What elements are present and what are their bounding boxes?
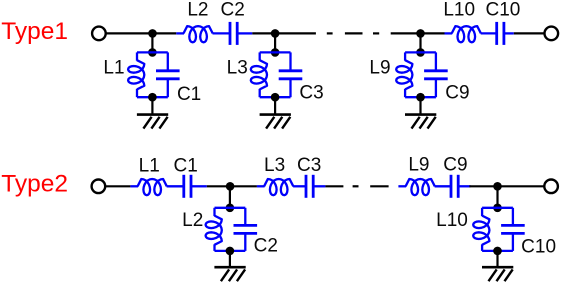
terminal port IN (Type2 left): [92, 180, 106, 194]
capacitor C10: [501, 208, 525, 251]
node branch bottom junction: [148, 93, 157, 102]
svg-text:C10: C10: [521, 237, 556, 258]
inductor L9: [396, 52, 412, 97]
wire L1-C1 branch stub: [151, 33, 153, 52]
svg-text:Type1: Type1: [1, 18, 68, 45]
wire branch bottom rail: [405, 96, 436, 98]
svg-text:C10: C10: [485, 0, 520, 20]
inductor L10: [445, 26, 481, 42]
svg-text:C9: C9: [443, 155, 467, 176]
terminal port OUT (Type1 right): [545, 27, 559, 41]
capacitor C2: [234, 208, 258, 251]
capacitor C1 (Type2): [167, 175, 207, 198]
svg-text:L9: L9: [408, 155, 429, 176]
wire L3-C3 branch stub: [274, 33, 276, 52]
wire branch bottom rail: [137, 96, 168, 98]
inductor L1 (Type2): [130, 179, 166, 195]
node branch bottom junction: [226, 247, 235, 256]
svg-text:C3: C3: [297, 155, 321, 176]
node branch bottom junction: [416, 93, 425, 102]
inductor L1: [128, 52, 144, 97]
ground: [214, 267, 245, 281]
ground: [405, 115, 436, 129]
wire: [514, 32, 544, 34]
node L10 branch top junction: [493, 204, 502, 213]
svg-text:L10: L10: [443, 0, 475, 20]
svg-text:C2: C2: [221, 0, 245, 21]
wire ground stub: [419, 97, 421, 114]
wire L2-C2 branch stub: [229, 186, 231, 208]
wire ground stub: [151, 97, 153, 114]
ground: [482, 267, 513, 281]
wire branch bottom rail: [260, 96, 291, 98]
node L9 branch top junction: [416, 48, 425, 57]
wire: [252, 32, 316, 34]
inductor L10: [473, 208, 489, 251]
capacitor C2: [213, 22, 253, 45]
terminal port IN (Type1 left): [92, 27, 106, 41]
svg-text:Type2: Type2: [1, 171, 68, 198]
capacitor C1: [156, 52, 180, 97]
svg-text:L3: L3: [227, 58, 248, 79]
wire branch top rail: [405, 51, 436, 53]
wire branch top rail: [215, 207, 246, 209]
node junction 1 (Type1): [148, 29, 157, 38]
svg-text:L10: L10: [436, 210, 468, 231]
wire ground stub: [274, 97, 276, 114]
inductor L2: [206, 208, 222, 251]
svg-text:L2: L2: [187, 0, 208, 21]
inductor L3 (Type2): [257, 179, 293, 195]
svg-text:C1: C1: [174, 156, 198, 177]
node junction 3 (Type1): [416, 29, 425, 38]
wire: [469, 185, 543, 187]
wire: [391, 32, 445, 34]
wire: [325, 185, 343, 187]
capacitor C9: [424, 52, 448, 97]
node L1 branch top junction: [148, 48, 157, 57]
svg-text:L9: L9: [369, 58, 390, 79]
node junction 2 (Type1): [271, 29, 280, 38]
node L3 branch top junction: [271, 48, 280, 57]
node L2 branch top junction: [226, 204, 235, 213]
node junction 1 (Type2): [226, 182, 235, 191]
wire ground stub: [496, 251, 498, 267]
capacitor C3 (Type2): [293, 175, 325, 198]
svg-text:C9: C9: [445, 83, 469, 104]
terminal port OUT (Type2 right): [544, 180, 558, 194]
svg-text:C3: C3: [299, 83, 323, 104]
inductor L3: [251, 52, 267, 97]
wire: [106, 185, 131, 187]
wire ground stub: [229, 251, 231, 267]
node branch bottom junction: [493, 247, 502, 256]
wire branch bottom rail: [482, 250, 513, 252]
wire branch top rail: [260, 51, 291, 53]
svg-text:C1: C1: [177, 84, 201, 105]
wire branch bottom rail: [215, 250, 246, 252]
wire dashed continuation (Type2): [353, 185, 389, 187]
wire: [207, 185, 257, 187]
inductor L9 (Type2): [398, 179, 434, 195]
ground: [137, 115, 168, 129]
wire L10-C10 branch stub: [496, 186, 498, 208]
wire branch top rail: [137, 51, 168, 53]
svg-text:L1: L1: [103, 58, 124, 79]
wire dashed continuation (Type1): [327, 32, 379, 34]
wire branch top rail: [482, 207, 513, 209]
capacitor C10: [481, 22, 514, 45]
wire L9-C9 branch stub: [419, 33, 421, 52]
svg-text:L2: L2: [182, 210, 203, 231]
inductor L2: [176, 26, 212, 42]
node junction 2 (Type2): [493, 182, 502, 191]
capacitor C9 (Type2): [435, 175, 471, 198]
svg-text:L1: L1: [139, 156, 160, 177]
ground: [260, 115, 291, 129]
svg-text:L3: L3: [264, 155, 285, 176]
wire: [106, 32, 176, 34]
capacitor C3: [279, 52, 303, 97]
node branch bottom junction: [271, 93, 280, 102]
svg-text:C2: C2: [254, 236, 278, 257]
